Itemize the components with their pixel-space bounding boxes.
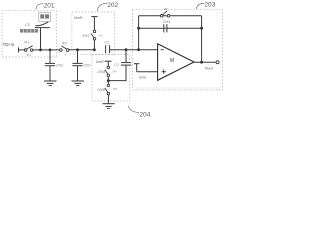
switch SR (Vref1)	[82, 30, 103, 40]
wire Vref2 to switch KA	[107, 61, 109, 66]
output wire	[194, 61, 216, 63]
capacitor C2 (series)	[104, 41, 110, 54]
dashed block 201	[2, 11, 57, 57]
node E junction (CR0 branch)	[125, 48, 128, 51]
capacitor Cres	[163, 20, 171, 32]
node F junction	[107, 79, 110, 82]
svg-text:C01: C01	[56, 63, 63, 67]
wire node F to switch KB	[107, 81, 109, 85]
svg-text:C02: C02	[83, 63, 91, 67]
terminal Vout	[205, 61, 219, 71]
inner dashed edge (block 203)	[137, 87, 222, 89]
wire node D up to switch	[93, 40, 95, 50]
wire S2 to node C	[69, 49, 95, 51]
node C junction (C02 branch)	[76, 48, 79, 51]
wire node C down	[77, 50, 79, 64]
svg-text:ΦR1: ΦR1	[82, 34, 89, 38]
node A junction	[39, 49, 42, 52]
terminal Vref1	[74, 16, 98, 20]
svg-text:Φ1: Φ1	[26, 53, 31, 57]
capacitor C0 (curved plate)	[25, 22, 50, 28]
leader to 202	[97, 3, 107, 11]
feedback right vertical wire	[201, 16, 203, 62]
svg-text:C1: C1	[114, 63, 119, 67]
input terminal TDI in	[3, 42, 19, 52]
svg-text:201: 201	[44, 2, 55, 9]
wire node E down	[125, 50, 127, 63]
svg-text:202: 202	[107, 2, 118, 9]
wire node B down	[49, 50, 51, 64]
svg-text:ΦB: ΦB	[113, 87, 118, 91]
wire node A up to capacitor C0	[40, 28, 42, 50]
wire CR0 bottom to box 204 node	[108, 65, 126, 81]
svg-text:203: 203	[204, 2, 215, 9]
feedback vertical wire	[138, 16, 140, 50]
node I junction	[200, 27, 203, 30]
ground (C02)	[72, 81, 85, 86]
dashed block 202	[72, 12, 115, 54]
node G junction (feedback tap)	[137, 48, 140, 51]
svg-text:S0: S0	[99, 33, 103, 37]
wire C01 to ground	[49, 66, 51, 81]
svg-text:Φ1: Φ1	[24, 41, 29, 45]
switch KB (CR0B)	[97, 84, 117, 95]
wire KB to ground	[107, 95, 109, 104]
wire C2 to node E	[110, 49, 139, 51]
svg-text:CR0A: CR0A	[97, 70, 106, 74]
node J junction (output)	[200, 61, 203, 64]
switch Sres (reset)	[160, 8, 169, 17]
feedback reset wire (top)	[139, 15, 202, 17]
switch S1 (phi1)	[24, 41, 33, 57]
ground (C01)	[44, 81, 57, 86]
leader to 204	[128, 106, 139, 113]
switch S2 (phi2)	[60, 41, 69, 56]
terminal Vcm	[134, 64, 146, 80]
wire input to switch S1	[19, 49, 25, 51]
svg-text:Vref1: Vref1	[74, 16, 83, 20]
svg-text:TDI in: TDI in	[3, 42, 15, 47]
svg-text:Vcm: Vcm	[139, 75, 146, 79]
svg-text:2: 2	[64, 52, 67, 56]
svg-text:ΦA: ΦA	[113, 70, 118, 74]
op-amp M	[158, 44, 194, 81]
wire C02 to ground	[77, 66, 79, 81]
leader to 201	[36, 4, 44, 10]
svg-text:204: 204	[139, 112, 150, 119]
dashed block 203	[132, 10, 222, 90]
svg-text:Cres: Cres	[163, 20, 171, 24]
svg-text:Vref2: Vref2	[96, 60, 104, 64]
non-inverting input wire	[137, 71, 158, 73]
svg-text:Φ2: Φ2	[62, 41, 67, 45]
leader to 203	[196, 3, 204, 9]
dashed block 204	[92, 55, 130, 101]
svg-text:CR0B: CR0B	[97, 88, 106, 92]
svg-text:Vout: Vout	[205, 66, 214, 71]
CJK caption (5 chars) in block 201	[20, 29, 38, 33]
node B junction (C01 branch)	[49, 49, 52, 52]
feedback capacitor wire (middle)	[139, 27, 202, 29]
wire KA to node F	[107, 77, 109, 81]
node H junction	[137, 27, 140, 30]
wire switch to Vref1 terminal	[93, 17, 95, 31]
svg-text:M: M	[170, 58, 175, 64]
terminal Vref2	[96, 60, 112, 64]
capacitor C02	[72, 63, 91, 67]
capacitor CR0	[114, 63, 131, 67]
wire node G to op-amp input	[139, 49, 158, 51]
ground (box 204)	[102, 104, 114, 109]
node D junction (Vref1 switch)	[93, 48, 96, 51]
wire node B to switch S2	[50, 49, 60, 51]
component box (CJK label) above C0	[39, 13, 51, 22]
wire S1 to node A	[33, 49, 50, 51]
switch KA (CR0A)	[97, 66, 117, 76]
capacitor C01	[45, 63, 63, 67]
